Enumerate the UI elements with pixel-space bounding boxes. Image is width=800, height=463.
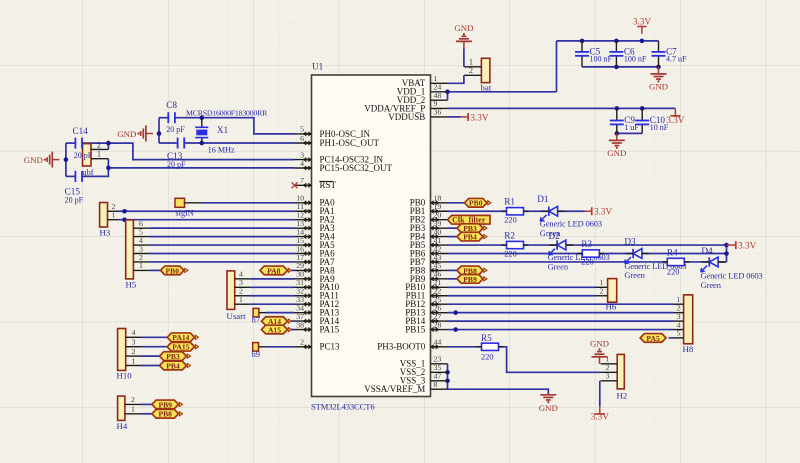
svg-text:Green: Green bbox=[624, 271, 645, 280]
U1 pin 3 (PC14-OSC32_IN) bbox=[295, 150, 384, 164]
net label PB0 (H5) bbox=[161, 266, 189, 275]
wire H3 pin2 to PA1 bbox=[118, 210, 295, 212]
wire VDD_2 link bbox=[447, 92, 449, 100]
U1 pin 27 (PB14) bbox=[405, 312, 447, 326]
U1 pin 5 (PH0-OSC_IN) bbox=[295, 125, 371, 139]
H3 wire link pin2 bbox=[108, 210, 119, 212]
header Usart bbox=[227, 270, 250, 321]
wire Usart pin3 to PA10 bbox=[250, 286, 295, 288]
svg-text:2: 2 bbox=[469, 66, 473, 75]
junction H3 pin1 bbox=[122, 217, 127, 222]
svg-text:2: 2 bbox=[300, 338, 304, 347]
resistor R2 bbox=[502, 230, 529, 258]
svg-text:1: 1 bbox=[132, 356, 136, 365]
net label PA8 bbox=[260, 266, 292, 275]
U1 pin 15 (PA5) bbox=[295, 236, 336, 250]
svg-text:PA14: PA14 bbox=[172, 333, 189, 342]
svg-text:1: 1 bbox=[139, 261, 143, 270]
svg-text:Generic LED 0603: Generic LED 0603 bbox=[540, 220, 602, 229]
U1 pin 32 (PA11) bbox=[295, 287, 339, 301]
wire PB13 to H8 bbox=[448, 312, 674, 314]
svg-text:MCRSD16000F183000RR: MCRSD16000F183000RR bbox=[186, 108, 268, 117]
svg-text:5: 5 bbox=[677, 329, 681, 338]
net label A14 bbox=[262, 317, 292, 326]
svg-text:3.3V: 3.3V bbox=[470, 112, 488, 122]
svg-text:PB4: PB4 bbox=[463, 233, 477, 242]
svg-text:D2: D2 bbox=[549, 231, 561, 241]
U1 pin 26 (PB13) bbox=[405, 303, 447, 317]
wire A15 label to PA15 bbox=[290, 329, 295, 331]
wire R1 to D1 bbox=[524, 210, 549, 212]
svg-text:PB15: PB15 bbox=[405, 324, 426, 334]
sigIN pin stub bbox=[185, 202, 202, 204]
connector h7 bbox=[253, 308, 259, 317]
wire lse left vertical bbox=[65, 143, 67, 176]
svg-text:R4: R4 bbox=[667, 248, 678, 258]
header H4 bbox=[117, 395, 142, 431]
wire qbf pin1 link bbox=[107, 159, 109, 168]
wire PB15 to H8 bbox=[448, 329, 674, 331]
wire Usart pin2 to PA11 bbox=[250, 295, 295, 297]
svg-text:PA5: PA5 bbox=[646, 334, 660, 343]
svg-text:5: 5 bbox=[300, 125, 304, 134]
wire H5 pin3 to PA6 bbox=[150, 253, 295, 255]
resistor R5 bbox=[477, 333, 504, 361]
capacitor C13 bbox=[178, 138, 185, 149]
wire PB14 to H8 bbox=[448, 320, 674, 322]
svg-text:20 pF: 20 pF bbox=[166, 125, 185, 134]
wire D4 to riser bbox=[718, 261, 726, 263]
capacitor C14 labels bbox=[73, 126, 93, 160]
wire cap bottom rail C5-C7 bbox=[582, 66, 659, 68]
h7 label bbox=[252, 315, 260, 324]
wire VDD_1 rail bbox=[448, 91, 557, 93]
wire cap bottom rail C9-C10 bbox=[617, 132, 642, 134]
header H10 bbox=[117, 328, 142, 380]
crystal X1 bbox=[195, 118, 235, 155]
svg-text:PA15: PA15 bbox=[320, 324, 340, 334]
capacitor C6 bbox=[609, 41, 647, 67]
svg-text:H10: H10 bbox=[117, 370, 133, 380]
wire H5 pin1 to PB0 label bbox=[150, 269, 161, 271]
wire h7 to PA13 bbox=[266, 312, 295, 314]
net label PB4 bbox=[457, 232, 487, 241]
wire PB1 to R1 bbox=[448, 210, 507, 212]
svg-text:Generic LED 0603: Generic LED 0603 bbox=[548, 253, 610, 262]
svg-text:4: 4 bbox=[300, 159, 304, 168]
U1 pin 11 (PA1) bbox=[295, 202, 335, 216]
wire PB12 to H8 bbox=[448, 303, 674, 305]
wire H10 pin2 to PB3 label bbox=[141, 355, 159, 357]
U1 pin 7 (RST) bbox=[292, 176, 337, 190]
junction LED riser PB6 bbox=[724, 251, 729, 256]
wire PB6 to R3 bbox=[448, 253, 583, 255]
wire H5 pin2 to PA7 bbox=[150, 261, 295, 263]
U1 pin 29 (PA8) bbox=[295, 261, 336, 275]
header H2 bbox=[601, 354, 628, 400]
header qbf bbox=[83, 140, 109, 176]
wire PB3 to label bbox=[448, 227, 458, 229]
wire H10 pin1 to PB4 label bbox=[141, 365, 159, 367]
wire osc top rail b bbox=[175, 118, 295, 134]
svg-text:GND: GND bbox=[590, 339, 609, 349]
wire VDDUSB stub bbox=[448, 116, 461, 118]
power 3.3V VDDA rail bbox=[666, 108, 684, 125]
junction VSS_3 bbox=[445, 379, 450, 384]
svg-text:44: 44 bbox=[434, 338, 442, 347]
wire D3 to riser bbox=[642, 253, 727, 255]
wire PC15 row bbox=[108, 167, 294, 169]
svg-text:qbf: qbf bbox=[83, 168, 94, 177]
capacitor C15 labels bbox=[65, 187, 84, 205]
U1 pin 1 (VBAT) bbox=[402, 74, 448, 88]
svg-text:H5: H5 bbox=[126, 280, 137, 290]
net label PA5 bbox=[640, 334, 666, 343]
U1 pin 46 (PB9) bbox=[410, 270, 448, 284]
wire LED riser bbox=[726, 245, 728, 262]
junction VSS_2 bbox=[445, 370, 450, 375]
net label PB9 (H4) bbox=[152, 400, 183, 409]
svg-text:R5: R5 bbox=[481, 333, 492, 343]
junction C6 top bbox=[614, 39, 619, 44]
ground below C7 bbox=[649, 67, 668, 92]
U1 pin 21 (PB10) bbox=[405, 278, 447, 292]
wire H5 pin6 to PA3 bbox=[150, 227, 295, 229]
wire H10 pin4 to PA14 label bbox=[141, 336, 167, 338]
U1 pin 35 (VSS_2) bbox=[400, 363, 448, 377]
U1 pin 8 (VSSA/VREF_M) bbox=[364, 380, 447, 394]
svg-text:8: 8 bbox=[434, 380, 438, 389]
header H5 bbox=[126, 219, 150, 290]
wire lse bottom rail bbox=[66, 175, 76, 177]
svg-text:6: 6 bbox=[300, 134, 304, 143]
svg-text:C8: C8 bbox=[166, 100, 177, 110]
U1 pin 10 (PA0) bbox=[295, 194, 336, 208]
wire osc bottom rail b bbox=[184, 142, 294, 144]
junction VDD_1/VDD_2 bbox=[445, 90, 450, 95]
net label PB0 bbox=[465, 198, 492, 207]
wire PA8 label to PA8 bbox=[288, 269, 295, 271]
svg-text:VDDUSB: VDDUSB bbox=[388, 112, 425, 122]
U1 pin 33 (PA12) bbox=[295, 295, 340, 309]
ground below C9 bbox=[607, 133, 626, 158]
svg-text:2: 2 bbox=[132, 347, 136, 356]
wire VDDA/VREF_P rail bbox=[448, 107, 676, 109]
wire VSS bus bbox=[447, 364, 449, 389]
svg-text:220: 220 bbox=[581, 258, 594, 267]
junction X1 bottom bbox=[200, 141, 205, 146]
U1 pin 20 (PB2) bbox=[410, 211, 448, 225]
net label PA15 (H10) bbox=[167, 342, 198, 351]
svg-text:1: 1 bbox=[97, 150, 101, 159]
ground crystal bbox=[117, 126, 153, 142]
connector h9 bbox=[253, 343, 259, 352]
junction H3 pin2 bbox=[122, 209, 127, 214]
U1 pin 48 (VDD_2) bbox=[397, 91, 448, 105]
svg-text:R1: R1 bbox=[504, 196, 515, 206]
svg-text:A15: A15 bbox=[268, 325, 281, 334]
op-amp U1 body (STM32L433CCT6) bbox=[311, 62, 431, 412]
wire VDD rail riser bbox=[556, 41, 558, 92]
ground lse bbox=[24, 152, 60, 168]
wire PB7 to R4 bbox=[448, 261, 668, 263]
svg-text:Green: Green bbox=[701, 281, 722, 290]
svg-text:bat: bat bbox=[481, 83, 492, 93]
wire PA5 label to H8 pin5 bbox=[669, 337, 674, 339]
U1 pin 30 (PA9) bbox=[295, 270, 336, 284]
svg-text:R2: R2 bbox=[504, 230, 515, 240]
wire lse bottom rail b bbox=[82, 168, 108, 177]
wire H2 pin3 to 3.3V bbox=[599, 381, 601, 407]
U1 pin 45 (PB8) bbox=[410, 261, 448, 275]
svg-text:20 pF: 20 pF bbox=[65, 196, 84, 205]
svg-text:PA8: PA8 bbox=[267, 266, 281, 275]
wire 3.3V cap top rail bbox=[557, 40, 659, 42]
wire PB9 to label bbox=[448, 278, 458, 280]
wire Usart pin1 to PA12 bbox=[250, 303, 295, 305]
junction C14 rail bbox=[106, 141, 111, 146]
svg-text:20 pF: 20 pF bbox=[74, 151, 93, 160]
junction LED riser PB5 bbox=[724, 243, 729, 248]
resistor R4 bbox=[662, 248, 689, 277]
svg-text:3.3V: 3.3V bbox=[738, 240, 756, 250]
svg-text:4.7 uF: 4.7 uF bbox=[666, 55, 687, 64]
svg-text:PB8: PB8 bbox=[158, 410, 172, 419]
net label Clk_filter bbox=[448, 215, 491, 224]
wire lse top rail bbox=[66, 142, 76, 144]
svg-text:PH3-BOOT0: PH3-BOOT0 bbox=[377, 342, 426, 352]
svg-text:sigIN: sigIN bbox=[176, 208, 194, 217]
capacitor C9 bbox=[610, 108, 640, 133]
svg-text:220: 220 bbox=[504, 215, 517, 224]
U1 pin 28 (PB15) bbox=[405, 320, 447, 334]
svg-text:h7: h7 bbox=[252, 315, 260, 324]
svg-text:GND: GND bbox=[649, 81, 668, 91]
junction C9 top bbox=[615, 106, 620, 111]
wire PB0 to label bbox=[448, 202, 467, 204]
U1 pin 6 (PH1-OSC_OUT) bbox=[295, 134, 380, 148]
U1 pin 4 (PC15-OSC32_OUT) bbox=[295, 159, 393, 173]
svg-text:220: 220 bbox=[481, 352, 494, 361]
wire D1 to 3.3V bbox=[558, 210, 585, 212]
svg-text:2: 2 bbox=[600, 287, 604, 296]
U1 pin 36 (VDDUSB) bbox=[388, 108, 447, 122]
wire D2 to 3.3V bbox=[566, 244, 727, 246]
svg-text:2: 2 bbox=[131, 395, 135, 404]
header H3 bbox=[100, 202, 119, 237]
svg-text:20 pF: 20 pF bbox=[167, 160, 186, 169]
U1 pin 39 (PB3) bbox=[410, 219, 448, 233]
wire BOOT0 to R5 bbox=[448, 346, 482, 348]
svg-text:h9: h9 bbox=[252, 350, 260, 359]
U1 pin 44 (PH3-BOOT0) bbox=[377, 338, 447, 352]
U1 pin 42 (PB6) bbox=[410, 244, 448, 258]
X1 part number label bbox=[186, 108, 268, 117]
svg-text:VSSA/VREF_M: VSSA/VREF_M bbox=[364, 384, 425, 394]
power 3.3V cap rail bbox=[633, 16, 651, 34]
U1 pin 40 (PB4) bbox=[410, 227, 448, 241]
junction PB15 wire bbox=[453, 327, 458, 332]
power 3.3V below H2 bbox=[591, 407, 609, 422]
wire PB5 to R2 bbox=[448, 244, 507, 246]
net label PB3 (H10) bbox=[160, 352, 191, 361]
capacitor C14 bbox=[75, 138, 82, 149]
svg-text:GND: GND bbox=[539, 403, 558, 413]
ground above bat bbox=[454, 23, 473, 49]
svg-text:PB9: PB9 bbox=[463, 275, 477, 284]
wire GND to bat pin1 bbox=[463, 48, 465, 66]
svg-text:PB3: PB3 bbox=[166, 352, 180, 361]
LED D4 bbox=[701, 246, 763, 290]
capacitor C8 labels bbox=[166, 100, 185, 134]
wire R5 to H2 pin2 bbox=[499, 347, 601, 373]
junction X1 top bbox=[200, 115, 205, 120]
svg-text:Green: Green bbox=[548, 262, 569, 271]
svg-text:Generic LED 0603: Generic LED 0603 bbox=[701, 272, 763, 281]
svg-text:PB0: PB0 bbox=[165, 266, 179, 275]
header H8 bbox=[674, 295, 694, 354]
svg-text:PA15: PA15 bbox=[172, 343, 189, 352]
capacitor C15 bbox=[75, 171, 82, 182]
wire H4 pin1 to PB8 label bbox=[141, 413, 152, 415]
svg-text:1: 1 bbox=[112, 211, 116, 220]
U1 pin 23 (VSS_1) bbox=[400, 355, 448, 369]
svg-text:3.3V: 3.3V bbox=[666, 115, 684, 125]
svg-text:PH1-OSC_OUT: PH1-OSC_OUT bbox=[320, 138, 380, 148]
U1 pin 13 (PA3) bbox=[295, 219, 336, 233]
junction 3.3V rail bbox=[640, 39, 645, 44]
wire osc top rail bbox=[159, 117, 168, 119]
svg-text:36: 36 bbox=[434, 108, 442, 117]
power 3.3V D1 bbox=[585, 207, 613, 217]
svg-text:C14: C14 bbox=[73, 126, 89, 136]
U1 pin 38 (PA15) bbox=[295, 320, 340, 334]
U1 pin 9 (VDDA/VREF_P) bbox=[364, 99, 447, 113]
U1 pin 14 (PA4) bbox=[295, 227, 336, 241]
header bat bbox=[464, 58, 492, 93]
wire PB8 to label bbox=[448, 269, 458, 271]
U1 pin 24 (VDD_1) bbox=[397, 83, 448, 97]
U1 pin 16 (PA6) bbox=[295, 244, 336, 258]
wire H5 pin5 to PA4 bbox=[150, 236, 295, 238]
svg-text:220: 220 bbox=[667, 267, 680, 276]
svg-text:PB0: PB0 bbox=[469, 199, 483, 208]
ground VSS bbox=[539, 393, 558, 413]
svg-text:Usart: Usart bbox=[227, 311, 247, 321]
svg-text:16 MHz: 16 MHz bbox=[208, 146, 235, 155]
capacitor C8 bbox=[168, 112, 175, 123]
svg-text:U1: U1 bbox=[312, 62, 324, 72]
resistor R3 bbox=[577, 239, 604, 267]
svg-text:D3: D3 bbox=[624, 237, 636, 247]
svg-text:100 nF: 100 nF bbox=[590, 55, 613, 64]
svg-text:38: 38 bbox=[296, 320, 304, 329]
ground above H2 bbox=[590, 339, 609, 364]
svg-text:H4: H4 bbox=[117, 421, 128, 431]
svg-text:1: 1 bbox=[131, 405, 135, 414]
svg-text:7: 7 bbox=[300, 176, 304, 185]
junction PC15 rail bbox=[106, 166, 111, 171]
svg-text:220: 220 bbox=[504, 249, 517, 258]
svg-text:GND: GND bbox=[454, 23, 473, 33]
svg-text:R3: R3 bbox=[581, 239, 592, 249]
power 3.3V VDDUSB bbox=[461, 112, 489, 122]
wire H3 pin1 to PA2 bbox=[118, 219, 295, 221]
svg-text:GND: GND bbox=[24, 155, 43, 165]
svg-text:PB9: PB9 bbox=[158, 400, 172, 409]
U1 pin 37 (PA14) bbox=[295, 312, 340, 326]
wire R2 to D2 bbox=[524, 244, 558, 246]
svg-text:X1: X1 bbox=[217, 125, 229, 135]
U1 pin 41 (PB5) bbox=[410, 236, 448, 250]
junction C10 top bbox=[640, 106, 645, 111]
U1 pin 43 (PB7) bbox=[410, 253, 448, 267]
junction C5 top bbox=[580, 39, 585, 44]
U1 pin 2 (PC13) bbox=[295, 338, 341, 352]
svg-text:3: 3 bbox=[132, 338, 136, 347]
svg-text:PC13: PC13 bbox=[320, 342, 341, 352]
svg-text:H8: H8 bbox=[683, 344, 694, 354]
svg-text:3.3V: 3.3V bbox=[633, 16, 651, 26]
junction C6 bottom bbox=[614, 65, 619, 70]
wire PB10 to H6 bbox=[448, 286, 596, 288]
junction C9 bottom bbox=[615, 131, 620, 136]
wire lse top rail b bbox=[82, 143, 295, 160]
LED D3 bbox=[624, 237, 686, 281]
wire sigIN to PA0 bbox=[201, 202, 295, 204]
net label PB4 (H10) bbox=[160, 361, 191, 370]
net label PB8 (H4) bbox=[152, 409, 183, 418]
capacitor C13 labels bbox=[167, 151, 186, 169]
wire PB11 to H6 bbox=[448, 295, 596, 297]
svg-text:STM32L433CCT6: STM32L433CCT6 bbox=[311, 402, 375, 412]
svg-text:3: 3 bbox=[606, 372, 610, 381]
U1 pin 22 (PB11) bbox=[406, 287, 448, 301]
svg-text:100 nF: 100 nF bbox=[624, 55, 647, 64]
junction C7 bottom bbox=[656, 65, 661, 70]
svg-text:1: 1 bbox=[239, 295, 243, 304]
junction lse gnd bbox=[64, 157, 69, 162]
h9 pin stub bbox=[259, 346, 267, 348]
U1 pin 17 (PA7) bbox=[295, 253, 336, 267]
wire h9 to PC13 bbox=[266, 346, 295, 348]
svg-text:GND: GND bbox=[117, 129, 136, 139]
svg-text:2: 2 bbox=[97, 140, 101, 149]
wire PB4 to label bbox=[448, 236, 458, 238]
wire R4 to D4 bbox=[685, 261, 710, 263]
resistor R1 bbox=[502, 196, 529, 224]
svg-text:H2: H2 bbox=[617, 391, 628, 401]
svg-text:3.3V: 3.3V bbox=[594, 207, 612, 217]
U1 pin 12 (PA2) bbox=[295, 211, 335, 225]
U1 pin 19 (PB1) bbox=[410, 202, 448, 216]
LED D2 bbox=[548, 231, 610, 271]
net label PA14 (H10) bbox=[167, 333, 198, 342]
power 3.3V LED rail bbox=[727, 240, 757, 250]
wire H4 pin2 to PB9 label bbox=[141, 403, 152, 405]
net label PB8 bbox=[457, 266, 487, 275]
junction osc gnd bbox=[157, 131, 162, 136]
capacitor C10 bbox=[635, 108, 669, 133]
svg-text:GND: GND bbox=[607, 148, 626, 158]
svg-text:28: 28 bbox=[434, 320, 442, 329]
U1 pin 47 (VSS_3) bbox=[400, 372, 448, 386]
U1 pin 18 (PB0) bbox=[410, 194, 448, 208]
h9 label bbox=[252, 350, 260, 359]
wire VSSA to GND bbox=[448, 389, 549, 394]
LED D1 bbox=[537, 194, 602, 238]
capacitor C7 bbox=[652, 41, 688, 67]
